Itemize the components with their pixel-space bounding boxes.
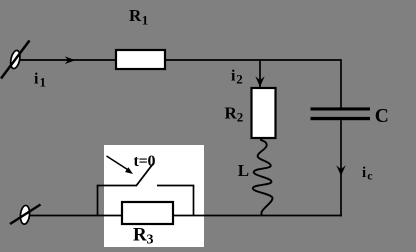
label ic [362, 165, 373, 182]
annotation arrow pointing to switch [107, 156, 134, 174]
capacitor C top plate [311, 107, 371, 110]
resistor R3 [122, 202, 173, 224]
svg-text:3: 3 [147, 233, 154, 248]
label i2 [231, 68, 243, 87]
white panel around switch and R3 [104, 145, 204, 247]
switch blade t=0 [136, 163, 154, 187]
label R1 [129, 6, 148, 28]
svg-text:1: 1 [40, 75, 47, 90]
svg-text:i: i [34, 71, 39, 88]
label R3 [133, 225, 154, 248]
svg-text:i: i [362, 165, 366, 181]
inductor L coil [253, 138, 273, 216]
wire right vertical lower (capacitor bottom plate to bottom wire) [340, 120, 342, 216]
svg-text:1: 1 [142, 13, 149, 28]
wire switch branch left horizontal [97, 185, 137, 187]
svg-text:L: L [238, 161, 249, 180]
resistor R2 [252, 88, 276, 138]
label i1 [34, 71, 46, 90]
wire top horizontal from input terminal to top-right corner [20, 59, 342, 61]
output terminal bottom-left (ellipse with slash) [10, 205, 41, 225]
arrow i2 on middle branch [255, 76, 264, 87]
svg-text:c: c [367, 168, 373, 182]
arrow ic on capacitor branch [336, 165, 345, 176]
wire switch branch left vertical [97, 186, 99, 217]
wire middle branch vertical (junction to R2) [259, 59, 261, 89]
arrow i1 on top wire [65, 56, 76, 64]
svg-text:t=0: t=0 [134, 153, 156, 170]
svg-text:i: i [231, 68, 236, 85]
svg-text:R: R [225, 104, 238, 123]
svg-text:R: R [129, 6, 142, 25]
wire bottom horizontal from output terminal to bottom-right corner [30, 215, 342, 217]
wire switch branch right horizontal [157, 185, 194, 187]
svg-text:C: C [375, 106, 389, 127]
svg-text:2: 2 [237, 110, 244, 125]
label R2 [225, 104, 244, 125]
capacitor C bottom plate [311, 117, 371, 120]
wire right vertical upper (corner to capacitor top plate) [340, 59, 342, 107]
svg-text:R: R [133, 225, 147, 246]
resistor R1 [116, 50, 165, 69]
input terminal top-left (ellipse with slash) [1, 41, 30, 79]
svg-text:2: 2 [236, 72, 243, 87]
wire switch branch right vertical [193, 186, 195, 217]
